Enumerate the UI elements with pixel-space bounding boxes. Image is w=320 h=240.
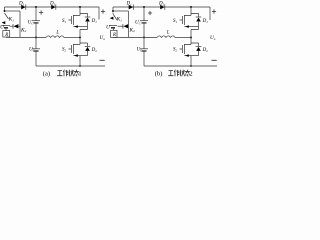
label + cap1 (b): [148, 11, 152, 15]
svg-text:D2: D2: [202, 48, 209, 53]
wire battery to R (a): [5, 29, 7, 31]
svg-text:S2: S2: [173, 48, 178, 53]
svg-text:L: L: [55, 31, 59, 36]
svg-text:K2: K2: [20, 27, 27, 33]
node mid junction (a): [79, 36, 81, 38]
body diode D1 (a): [85, 16, 91, 18]
resistor R box (a): [3, 31, 10, 37]
inductor L (b): [157, 36, 175, 38]
diode K2 (a): [12, 24, 14, 29]
transistor S2 (b): [180, 43, 192, 54]
capacitor C2 (a): [32, 48, 40, 50]
node cap junction top (a): [35, 6, 37, 8]
wire K-loop top (a): [5, 10, 21, 12]
wire top rail (a): [5, 6, 100, 8]
svg-text:UC: UC: [135, 21, 142, 26]
body diode D1 (b): [196, 16, 202, 18]
wire middle rail left (b): [113, 36, 157, 38]
svg-text:D1: D1: [126, 2, 133, 7]
wire output stub (b): [209, 7, 211, 20]
diode VD2 on top rail (a): [51, 5, 55, 10]
wire top-left corner drop (a): [4, 7, 6, 11]
wire top rail (b): [113, 6, 210, 8]
label + cap1 (a): [39, 10, 43, 14]
caption (b) char tai: [185, 70, 190, 76]
wire cap branch upper (b): [143, 7, 145, 21]
wire S1 to midpoint jog (b): [191, 27, 199, 46]
svg-text:L: L: [166, 31, 170, 36]
svg-text:(a): (a): [43, 71, 50, 77]
wire bottom rail (b): [144, 65, 217, 67]
caption (a) char gong: [57, 71, 62, 76]
svg-text:D1: D1: [202, 19, 209, 24]
caption (a) char zuo: [63, 70, 68, 77]
svg-text:K2: K2: [129, 27, 136, 33]
svg-text:UC: UC: [137, 48, 144, 53]
diode K2 (b): [122, 24, 124, 29]
wire S2 source bar (b): [184, 55, 198, 57]
wire cap1 to mid rail (b): [143, 23, 145, 38]
wire middle rail right (b): [175, 36, 191, 38]
body diode D2 (b): [196, 45, 202, 47]
wire bottom rail (a): [36, 65, 105, 67]
wire S1 drain from rail (b): [184, 7, 191, 15]
svg-text:D2: D2: [49, 2, 56, 7]
wire cap1 to mid rail (a): [35, 23, 37, 38]
svg-text:S1: S1: [62, 19, 67, 24]
capacitor C2 (b): [140, 48, 148, 50]
label + output (b): [212, 9, 216, 13]
node input junction (b): [112, 10, 114, 12]
wire S1 source bar (a): [73, 26, 87, 28]
svg-text:K1: K1: [116, 17, 123, 23]
svg-text:UC: UC: [28, 21, 35, 26]
wire S2 source bar (a): [73, 55, 87, 57]
svg-text:D2: D2: [158, 2, 165, 7]
node top rail S1 junction (b): [190, 6, 192, 8]
svg-text:2: 2: [189, 71, 192, 77]
wire S1 diode top link (a): [80, 13, 88, 17]
wire S1 drain from rail (a): [73, 7, 80, 15]
node bottom junction (b): [190, 65, 192, 67]
node mid junction (b): [190, 36, 192, 38]
arrow S1 source (b): [185, 25, 189, 28]
wire middle rail right (a): [64, 36, 80, 38]
node top rail S1 junction (a): [79, 6, 81, 8]
inductor L (a): [46, 36, 64, 38]
svg-text:S1: S1: [173, 19, 178, 24]
wire S1 source bar (b): [184, 26, 198, 28]
arrow S1 source (a): [74, 25, 78, 28]
svg-text:D2: D2: [91, 48, 98, 53]
transistor S2 (a): [69, 43, 81, 54]
transistor S1 (b): [180, 15, 185, 25]
battery U plates (b): [109, 25, 117, 27]
node bottom junction (a): [79, 65, 81, 67]
diode VD1 on top rail (b): [129, 5, 133, 10]
svg-text:Uo: Uo: [210, 35, 216, 41]
wire S2 source to bottom rail (b): [190, 56, 192, 66]
wire S1 to midpoint jog (a): [80, 27, 88, 46]
label minus output (b): [212, 59, 217, 61]
wire K2 branch vertical (b): [128, 11, 130, 37]
capacitor C1 (b): [140, 20, 148, 22]
diode VD2 on top rail (b): [160, 5, 164, 10]
resistor R box (b): [111, 30, 117, 37]
wire output stub (a): [98, 7, 100, 20]
wire battery to R (b): [113, 29, 115, 38]
svg-text:K1: K1: [8, 17, 15, 23]
arrow S2 source (a): [74, 54, 78, 57]
label + output (a): [101, 9, 105, 13]
wire cap2 to bottom rail (a): [35, 51, 37, 66]
caption (b) char zhuang: [179, 70, 184, 77]
node cap junction top (b): [143, 6, 145, 8]
label minus output (a): [100, 59, 105, 61]
arrow S2 source (b): [185, 54, 189, 57]
wire cap branch lower (b): [143, 37, 145, 48]
svg-text:(b): (b): [155, 71, 163, 77]
wire S1 diode top link (b): [191, 13, 199, 17]
body diode D2 (a): [85, 45, 91, 47]
switch K1 arrowhead (b): [110, 17, 114, 20]
svg-text:Uo: Uo: [100, 35, 106, 41]
svg-text:S2: S2: [62, 48, 67, 53]
node input junction (a): [4, 10, 6, 12]
svg-text:D1: D1: [91, 19, 98, 24]
wire K2 branch vertical (a): [19, 11, 21, 37]
caption (b) char gong: [168, 71, 173, 76]
wire S2 source to bottom rail (a): [79, 56, 81, 66]
node cap junction mid (b): [143, 36, 145, 38]
wire cap2 to bottom rail (b): [143, 51, 145, 66]
wire middle rail left (a): [6, 36, 46, 38]
caption (a) char zhuang: [68, 70, 73, 77]
node cap junction mid (a): [35, 36, 37, 38]
battery U plates (a): [2, 25, 10, 27]
capacitor C1 (a): [32, 20, 40, 22]
diode VD1 on top rail (a): [21, 5, 25, 10]
switch K1 blade (a): [5, 13, 9, 19]
transistor S1 (a): [69, 15, 74, 25]
switch K1 arrowhead (a): [2, 21, 6, 24]
wire K-loop top (b): [113, 10, 129, 12]
svg-text:UC: UC: [29, 48, 36, 53]
wire cap branch lower (a): [35, 37, 37, 48]
wire cap branch upper (a): [35, 7, 37, 21]
wire top-left corner drop (b): [112, 7, 114, 11]
svg-text:D1: D1: [18, 2, 25, 7]
caption (a) char tai: [74, 70, 79, 76]
svg-text:1: 1: [78, 71, 81, 77]
caption (b) char zuo: [174, 70, 179, 77]
switch K1 blade (b): [113, 13, 117, 20]
